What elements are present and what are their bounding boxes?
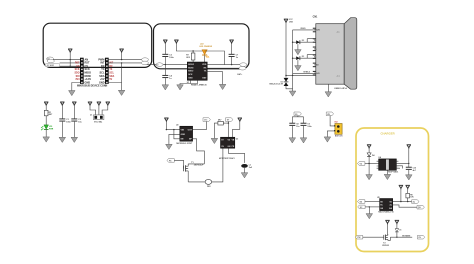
ground (D1)	[289, 91, 296, 96]
connector CN1 pin names	[314, 30, 320, 75]
net flag AGND (T1 gate)	[167, 159, 174, 163]
svg-text:SDO: SDO	[75, 73, 80, 75]
wire: VBUS vertical	[285, 23, 287, 77]
net bubble right A	[240, 63, 247, 67]
net flag VBAT (battery conn)	[326, 112, 333, 116]
wire: left GND	[72, 83, 80, 91]
wire gate	[363, 236, 384, 238]
svg-text:SCL: SCL	[109, 73, 114, 75]
net flag STAT	[226, 118, 233, 122]
net flag 3V3 out	[203, 118, 210, 122]
ground (U5)	[366, 214, 373, 219]
capacitor C7	[229, 54, 235, 57]
wire	[368, 149, 370, 153]
ground (C2)	[71, 137, 78, 142]
wire VUSB to U4	[365, 163, 379, 165]
net bubble right B	[239, 66, 246, 70]
wire BP down	[193, 139, 205, 164]
IC U2 LDO	[180, 126, 193, 141]
net flag PWM (left)	[355, 235, 362, 239]
svg-text:CHARGER: CHARGER	[381, 132, 395, 136]
power symbol (T2 drain)	[385, 220, 389, 224]
pin labels CN4	[98, 58, 105, 84]
wire: CN1 shield to gnd	[327, 84, 329, 92]
node: 5V junction	[121, 53, 123, 60]
power symbol (U5 VDD)	[399, 185, 403, 189]
svg-text:SCK: SCK	[75, 69, 80, 71]
svg-text:USB: USB	[289, 21, 293, 23]
ground (C8)	[289, 138, 296, 143]
svg-text:10u: 10u	[78, 122, 82, 124]
wire drain	[387, 224, 389, 235]
svg-text:TX: TX	[109, 69, 112, 71]
svg-text:D2: D2	[302, 40, 304, 42]
ferrite bead FB1	[205, 179, 212, 184]
red net labels CN3	[75, 63, 81, 81]
wire SCL	[365, 206, 380, 208]
wire VDD to U3	[233, 122, 240, 137]
net flag ALERT	[412, 200, 419, 204]
LED LD2 orange	[202, 50, 209, 63]
power symbol (VCC SEL right)	[106, 102, 110, 106]
wire R9 bottom	[407, 198, 409, 202]
svg-text:J1: J1	[90, 115, 93, 117]
svg-text:10K: 10K	[410, 197, 414, 199]
svg-text:MOSI: MOSI	[188, 67, 194, 69]
node	[165, 64, 166, 65]
power symbol 3V3 (left of connector CN3)	[68, 49, 72, 53]
wire U2 GND	[169, 134, 180, 144]
wire	[45, 106, 47, 110]
svg-text:VDD: VDD	[202, 64, 207, 66]
ground (D2)	[295, 50, 302, 55]
wire caps rail	[292, 116, 303, 124]
wire VBUS to pin	[293, 30, 316, 76]
power symbol VCC (LED branch)	[174, 40, 178, 44]
net flag VUSB	[358, 162, 365, 166]
svg-text:100n: 100n	[307, 126, 312, 128]
power symbol (C2)	[72, 102, 76, 106]
TVS diode D1	[269, 75, 292, 91]
svg-text:3V3: 3V3	[204, 120, 207, 122]
wire AN	[53, 59, 80, 61]
wire L1 to gnd	[244, 168, 246, 173]
wire	[45, 116, 47, 125]
red net labels CN4	[109, 63, 114, 81]
ground (LD1)	[43, 137, 50, 142]
svg-text:BAT+: BAT+	[237, 73, 243, 76]
wire: U1 right rail	[207, 64, 247, 66]
IC U3 charger	[221, 137, 235, 148]
connector CN1 USB body	[316, 24, 344, 84]
wire R8 right	[223, 122, 228, 124]
power symbol (VCC SEL mid)	[97, 102, 101, 106]
wire: U1 right to gnd	[207, 72, 222, 85]
wire RST	[60, 62, 80, 64]
resistor R8	[218, 121, 223, 125]
wire U5 pin to flag2	[393, 205, 418, 207]
wire: right GND	[109, 63, 122, 90]
svg-text:SCK: SCK	[188, 74, 193, 76]
wire	[164, 44, 166, 54]
svg-text:1u: 1u	[236, 57, 239, 59]
inductor L1	[241, 164, 248, 168]
connector CN1 USB shell	[344, 18, 357, 90]
wire: U1 right lower	[207, 67, 243, 68]
module outline: mikroBUS connector block	[43, 23, 152, 67]
ground (C9)	[300, 138, 307, 143]
wire OUT to flag	[193, 121, 207, 129]
svg-text:MIC5528-3.3YMT: MIC5528-3.3YMT	[176, 143, 193, 145]
wire U4 bottom to gnd	[386, 170, 388, 174]
ground (CN3)	[69, 91, 76, 96]
svg-text:RST: RST	[75, 63, 80, 65]
svg-text:MISO: MISO	[188, 71, 194, 73]
svg-text:SDA: SDA	[109, 75, 114, 78]
svg-text:MCP73831T-2ACI: MCP73831T-2ACI	[219, 157, 235, 160]
svg-text:D5: D5	[399, 229, 401, 231]
power symbol (U2 VIN)	[164, 118, 168, 122]
svg-text:VIN: VIN	[181, 130, 185, 132]
net bubble on INT wire	[141, 61, 148, 65]
highlighted module box (charger section)	[356, 128, 429, 252]
svg-text:SMAJ5.0CA-TR: SMAJ5.0CA-TR	[269, 83, 283, 86]
power symbol VBUS	[284, 19, 288, 23]
power symbol VCC (C3 chain)	[163, 40, 167, 44]
svg-text:CN1: CN1	[313, 16, 318, 19]
wire D5 top	[396, 224, 398, 228]
svg-text:CS: CS	[76, 66, 80, 68]
node: power/RST junction	[70, 59, 71, 60]
net bubble RST (left)	[47, 59, 54, 63]
net flag VSYS (caps)	[294, 112, 301, 116]
connector CN1 pin stubs	[313, 28, 316, 76]
power symbol VCC (C7 chain)	[229, 40, 233, 44]
wires U4 right	[396, 163, 408, 168]
svg-text:U2: U2	[176, 125, 178, 127]
wire gnd row	[286, 74, 316, 76]
net flag right (bottom)	[417, 235, 424, 239]
svg-text:10u: 10u	[296, 126, 300, 128]
wire INT to device block	[109, 63, 156, 65]
transistor T1	[184, 164, 189, 182]
net bubble on PWM wire	[142, 58, 149, 62]
ground (CN1)	[325, 92, 332, 97]
net flag SDA	[358, 200, 365, 204]
svg-text:100n: 100n	[66, 122, 71, 124]
svg-text:PW: PW	[357, 237, 360, 239]
svg-text:MIKROBUS DEVICE CONN: MIKROBUS DEVICE CONN	[77, 85, 108, 88]
ground (C4)	[162, 85, 169, 90]
power symbol (VCC SEL left)	[88, 102, 92, 106]
svg-text:RX: RX	[109, 66, 113, 68]
wire: rail to U1	[163, 64, 187, 66]
svg-text:100n: 100n	[169, 57, 174, 59]
module outline: device block	[154, 24, 250, 69]
diode D4	[367, 153, 375, 164]
wire CS	[60, 65, 80, 67]
power symbol (R1 chain)	[44, 102, 48, 106]
capacitor C8	[289, 123, 295, 126]
ESD diode D2	[292, 39, 316, 50]
wire	[164, 57, 166, 65]
LED LD1 green	[41, 125, 49, 137]
svg-text:FB1: FB1	[207, 186, 211, 188]
svg-text:USB2.0-UP-A: USB2.0-UP-A	[334, 87, 347, 90]
power symbol (D4)	[367, 145, 371, 149]
wire source rail	[390, 236, 412, 238]
svg-text:2u2: 2u2	[249, 167, 252, 169]
svg-text:SDI: SDI	[76, 76, 80, 78]
wire CN2 pin2 to gnd	[327, 131, 335, 137]
wires to jumper J1	[90, 106, 108, 115]
svg-text:PWR: PWR	[49, 129, 54, 131]
capacitor C3	[162, 54, 168, 57]
capacitor C2	[71, 118, 77, 121]
ground (R8)	[211, 138, 218, 143]
ground (L1)	[241, 173, 248, 178]
resistor R7	[191, 53, 195, 60]
ground (C1)	[59, 137, 66, 142]
ESD diode D3	[292, 55, 316, 66]
wire: U1 bottom stubs	[180, 80, 198, 85]
wire SDA	[365, 201, 380, 203]
ground (CN4)	[118, 90, 125, 95]
svg-text:5V: 5V	[109, 79, 112, 81]
wire VIN rail	[166, 122, 179, 130]
wire R8 left to gnd	[214, 123, 218, 138]
power symbol (C10)	[407, 145, 411, 149]
svg-text:VCC SEL: VCC SEL	[94, 122, 103, 124]
power symbol (U3 VDD)	[238, 118, 242, 122]
jumper J1 VCC SEL	[90, 115, 104, 120]
ground (U1 bottom)	[177, 85, 184, 90]
ground (C10)	[406, 175, 413, 180]
ground (U2)	[166, 144, 173, 149]
svg-text:LED ORANGE: LED ORANGE	[199, 45, 212, 48]
power symbol (D5)	[395, 220, 399, 224]
wire to gnd	[368, 164, 370, 175]
wire STAT to U3	[227, 121, 229, 137]
diode D5	[395, 229, 401, 238]
wire source	[188, 181, 205, 183]
svg-text:2N7002: 2N7002	[382, 245, 389, 247]
IC U1	[187, 62, 207, 80]
svg-text:4K7: 4K7	[218, 118, 221, 121]
svg-text:D4: D4	[372, 154, 375, 157]
wire to R7 and LED	[176, 44, 204, 51]
svg-text:D-: D-	[314, 40, 317, 42]
svg-text:GND: GND	[314, 65, 319, 67]
svg-text:GND: GND	[181, 134, 186, 136]
svg-text:I2C ADR: I2C ADR	[47, 64, 55, 67]
capacitor C1	[59, 118, 65, 121]
ground (D3)	[295, 66, 302, 71]
svg-text:4u7: 4u7	[413, 169, 416, 172]
capacitor C10	[406, 167, 412, 170]
svg-text:MCLR: MCLR	[188, 64, 194, 66]
net bubble IO (device block left)	[156, 63, 163, 67]
wire drain rail	[188, 163, 204, 165]
pin labels CN3 left	[85, 58, 92, 84]
wire: power stem to RST wire	[69, 53, 71, 66]
svg-text:3V3: 3V3	[75, 79, 80, 81]
svg-text:U3: U3	[236, 139, 238, 141]
IC U4	[377, 159, 399, 170]
ground (U4 left)	[366, 175, 373, 180]
wire EN	[174, 130, 180, 139]
ground (U1 right)	[219, 84, 226, 89]
connector CN4 right header (mikroBUS)	[105, 58, 109, 84]
wire to gnd	[368, 207, 370, 214]
resistor R9	[406, 193, 410, 198]
wire U3 bottom to L1	[228, 148, 244, 163]
wire PWM out	[109, 59, 145, 61]
svg-text:MAX17048G+T10: MAX17048G+T10	[378, 211, 393, 214]
power symbol (C1)	[60, 102, 64, 106]
net flag AN (left)	[47, 57, 54, 61]
wire U5 VDD	[393, 189, 414, 201]
svg-text:4K7: 4K7	[49, 113, 54, 116]
svg-text:2K2: 2K2	[186, 57, 191, 59]
wire FB1 to U3	[212, 148, 223, 182]
wire gate	[174, 160, 183, 168]
resistor R1	[44, 110, 48, 116]
net flag SCL	[358, 205, 365, 209]
capacitor C4 below rail	[164, 65, 166, 76]
power symbol (R9)	[406, 185, 410, 189]
IC U5 fuel gauge	[380, 199, 393, 211]
svg-text:GND: GND	[188, 78, 193, 80]
power symbol 5V (right of CN4)	[119, 49, 123, 53]
wire to CN2	[330, 116, 335, 126]
transistor T2	[384, 234, 391, 240]
connector CN2 battery	[334, 124, 342, 135]
wire	[408, 149, 410, 167]
svg-text:VB SENS: VB SENS	[402, 236, 411, 238]
svg-text:2N7002LP: 2N7002LP	[194, 164, 204, 166]
svg-text:D3: D3	[302, 56, 304, 58]
label box I2C ADR	[45, 63, 59, 66]
ground (U4)	[384, 174, 391, 179]
connector CN3 left header (mikroBUS)	[80, 58, 84, 84]
capacitor C9	[301, 123, 307, 126]
wire R9 top	[407, 189, 409, 193]
net flag QST	[417, 205, 424, 209]
svg-text:BATCON: BATCON	[335, 134, 343, 137]
ground (CN2)	[324, 137, 331, 142]
svg-text:1u: 1u	[169, 78, 172, 80]
wire: LED rail to C7 branch	[205, 51, 225, 65]
svg-text:MCP73831: MCP73831	[388, 171, 399, 173]
